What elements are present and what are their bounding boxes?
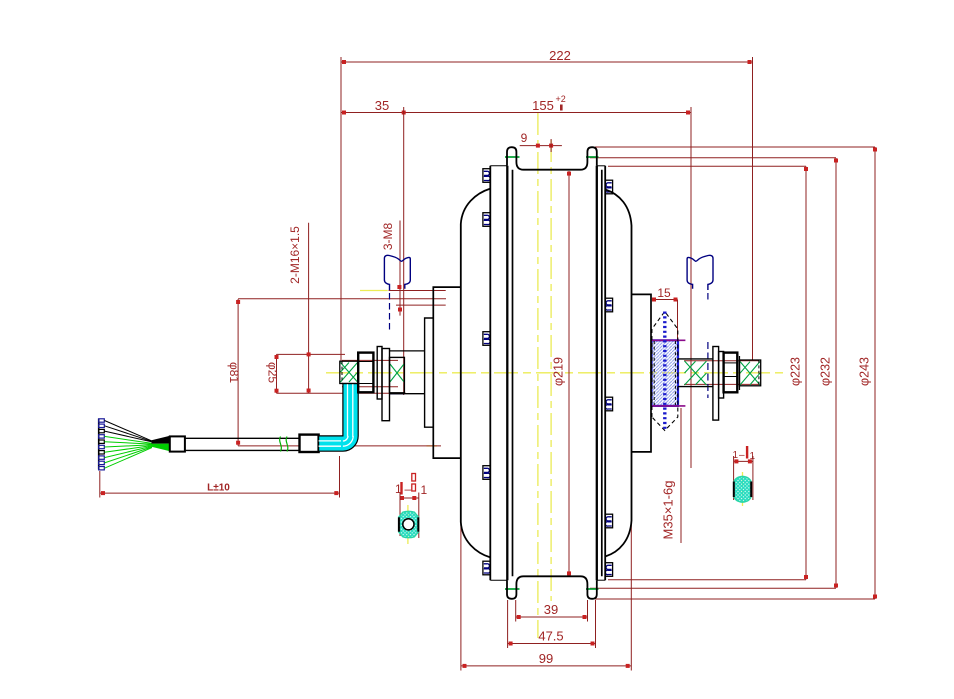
svg-text:2-M16×1.5: 2-M16×1.5 xyxy=(288,226,302,284)
svg-text:99: 99 xyxy=(539,651,553,666)
svg-text:35: 35 xyxy=(375,98,389,113)
svg-text:3-M8: 3-M8 xyxy=(381,223,395,251)
svg-text:39: 39 xyxy=(544,602,558,617)
svg-text:φ223: φ223 xyxy=(789,357,803,386)
svg-text:47.5: 47.5 xyxy=(538,629,563,644)
svg-text:L±10: L±10 xyxy=(207,483,230,494)
svg-text:φ25: φ25 xyxy=(266,362,280,383)
svg-text:155: 155 xyxy=(532,98,554,113)
svg-text:9: 9 xyxy=(521,131,528,145)
svg-text:φ81: φ81 xyxy=(227,362,241,383)
svg-text:φ243: φ243 xyxy=(858,357,872,386)
svg-text:φ219: φ219 xyxy=(552,357,566,386)
svg-text:–: – xyxy=(405,482,412,496)
svg-text:+2: +2 xyxy=(556,94,566,104)
svg-text:1: 1 xyxy=(421,483,428,497)
svg-text:–: – xyxy=(739,450,745,461)
svg-text:φ232: φ232 xyxy=(819,357,833,386)
svg-text:222: 222 xyxy=(549,48,571,63)
svg-text:M35×1-6g: M35×1-6g xyxy=(661,481,676,540)
svg-text:15: 15 xyxy=(657,286,671,300)
